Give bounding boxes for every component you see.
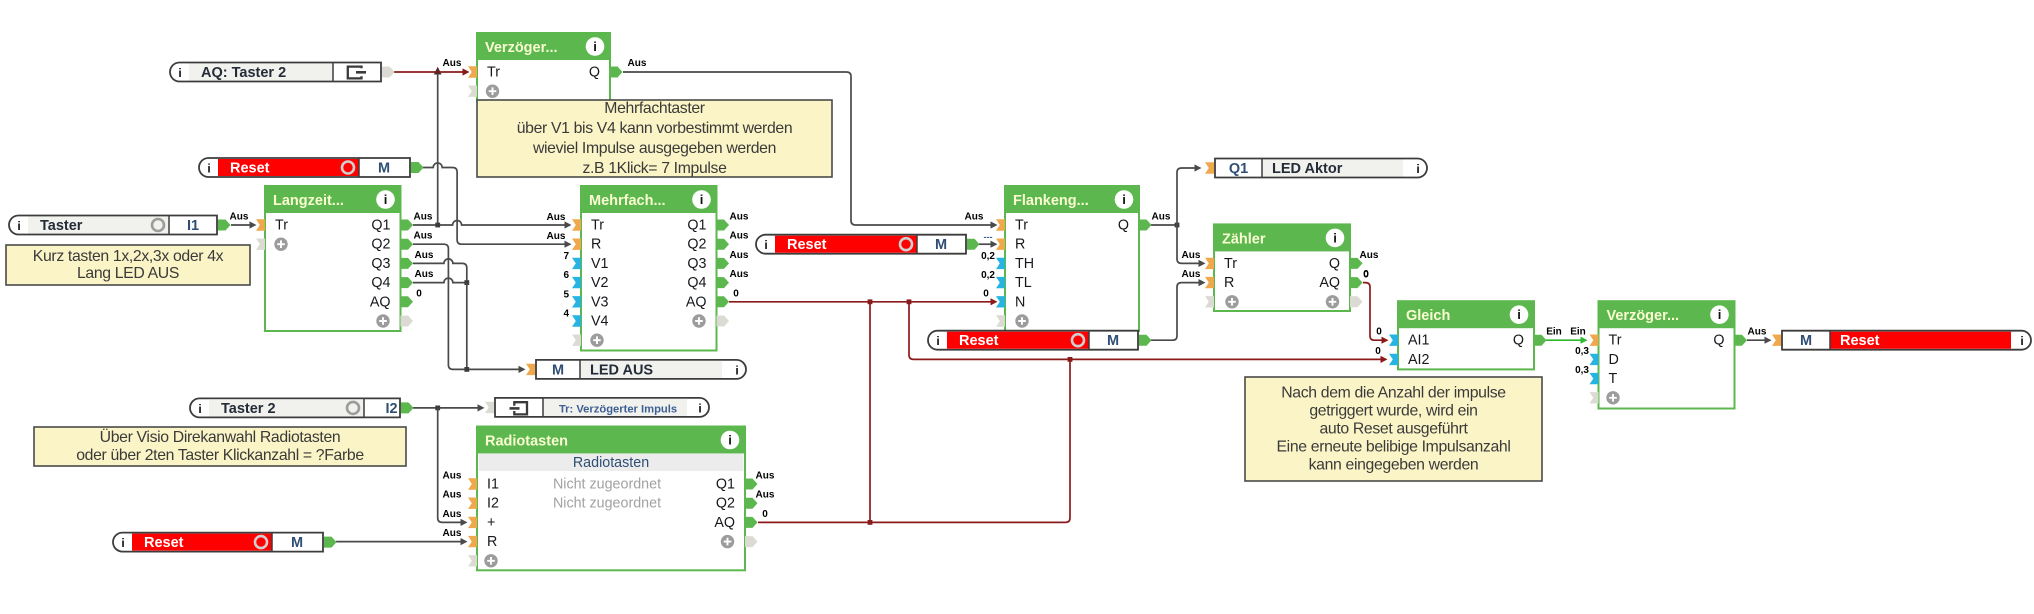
svg-text:Aus: Aus	[730, 269, 749, 280]
function block Gleich (comparator)	[1389, 301, 1547, 369]
svg-text:T: T	[1609, 371, 1618, 387]
svg-text:6: 6	[563, 270, 569, 281]
svg-text:Mehrfachtaster: Mehrfachtaster	[604, 100, 705, 117]
labels Langzeit output values	[0, 0, 1, 1]
svg-text:i: i	[1122, 192, 1126, 207]
svg-text:0,3: 0,3	[1575, 365, 1589, 376]
svg-text:i: i	[2020, 334, 2023, 348]
wire analog Radiotasten AQ right then up to join bus at 1070,359.4	[758, 359, 1070, 524]
svg-text:Über Visio Direkanwahl Radiota: Über Visio Direkanwahl Radiotasten	[100, 428, 341, 446]
svg-text:Nach dem die Anzahl der impuls: Nach dem die Anzahl der impulse	[1281, 385, 1506, 402]
svg-text:Q3: Q3	[687, 256, 706, 272]
wire Langzeit Q3 (hop over Q2 vertical) down to Q4 junction	[413, 250, 467, 283]
wire Reset marker M up to Zähler R input	[1151, 269, 1206, 340]
svg-text:Eine erneute belibige Impulsan: Eine erneute belibige Impulsanzahl	[1277, 439, 1511, 456]
svg-text:I2: I2	[487, 496, 499, 512]
svg-text:Aus: Aus	[1748, 327, 1767, 338]
svg-text:Q4: Q4	[687, 275, 706, 291]
svg-text:Aus: Aus	[730, 250, 749, 261]
svg-text:getriggert wurde, wird ein: getriggert wurde, wird ein	[1309, 403, 1477, 420]
svg-text:0,3: 0,3	[1575, 346, 1589, 357]
svg-text:Nicht zugeordnet: Nicht zugeordnet	[553, 496, 661, 512]
svg-text:Radiotasten: Radiotasten	[573, 455, 649, 471]
svg-text:M: M	[1107, 333, 1119, 349]
svg-text:Tr: Tr	[487, 65, 500, 81]
svg-text:Aus: Aus	[230, 212, 249, 223]
svg-text:Aus: Aus	[414, 212, 433, 223]
function block Verzögerung (delay) top	[468, 33, 623, 101]
note Kurz tasten	[6, 245, 250, 285]
svg-text:oder über 2ten Taster Klickanz: oder über 2ten Taster Klickanzahl = ?Far…	[76, 447, 364, 464]
function block Flankengesteuerter Impulsgeber	[981, 186, 1151, 331]
svg-text:i: i	[198, 402, 201, 416]
output reference Q1 LED Aktor	[1205, 159, 1427, 178]
svg-text:AQ: AQ	[370, 294, 391, 310]
svg-text:V4: V4	[591, 314, 609, 330]
svg-text:0: 0	[733, 288, 739, 299]
wire analog branch from junction 909,301.8 down and right to Gleich AI2	[909, 302, 1388, 363]
wire Taster 2 I2 to Tr: Verzögerter Impuls reference and down to Radiotasten + input	[413, 404, 485, 526]
function block Zähler (counter)	[1205, 224, 1379, 311]
svg-text:0: 0	[1376, 327, 1382, 338]
svg-text:i: i	[728, 433, 732, 448]
svg-text:Aus: Aus	[965, 212, 984, 223]
label Tr: Verzögerter Impuls text	[559, 403, 677, 415]
svg-text:Verzöger...: Verzöger...	[1607, 308, 1680, 324]
svg-text:Tr: Tr	[275, 218, 288, 234]
svg-text:AI1: AI1	[1408, 333, 1430, 349]
svg-text:Reset: Reset	[144, 535, 184, 551]
svg-text:i: i	[1333, 230, 1337, 245]
svg-text:Q1: Q1	[716, 477, 735, 493]
wire Langzeit Q2 down to M LED AUS marker	[413, 231, 526, 373]
svg-text:i: i	[384, 192, 388, 207]
svg-text:Q: Q	[1118, 218, 1129, 234]
svg-text:M: M	[378, 161, 390, 177]
svg-text:Aus: Aus	[756, 490, 775, 501]
svg-text:D: D	[1609, 352, 1619, 368]
svg-text:5: 5	[563, 289, 569, 300]
svg-text:Aus: Aus	[1360, 250, 1379, 261]
svg-text:Langzeit...: Langzeit...	[273, 193, 344, 209]
svg-text:Taster 2: Taster 2	[221, 401, 276, 417]
icon export arrow of AQ: Taster 2	[348, 67, 366, 79]
svg-text:R: R	[591, 237, 601, 253]
svg-text:Gleich: Gleich	[1406, 308, 1450, 324]
svg-text:Aus: Aus	[415, 269, 434, 280]
svg-text:kann eingegeben werden: kann eingegeben werden	[1309, 457, 1479, 474]
svg-text:7: 7	[563, 251, 569, 262]
wire analog bus Mehrfachtaster AQ to Flankengesteuert N input	[729, 288, 998, 305]
input reference Taster 2 I2	[190, 398, 414, 417]
input reference Reset marker middle	[756, 235, 980, 254]
svg-text:M: M	[291, 535, 303, 551]
svg-text:i: i	[735, 363, 738, 377]
svg-text:Q1: Q1	[687, 218, 706, 234]
svg-text:i: i	[700, 192, 704, 207]
svg-text:Ein: Ein	[1570, 327, 1586, 338]
svg-text:Tr: Tr	[1609, 333, 1622, 349]
svg-text:i: i	[764, 238, 767, 252]
svg-text:0: 0	[1375, 346, 1381, 357]
svg-text:Reset: Reset	[959, 333, 999, 349]
wire Langzeit Q4 (hop over Q2 vertical) join Q3 at junction 466.8,282.6	[413, 269, 469, 285]
svg-text:Tr: Tr	[1015, 218, 1028, 234]
svg-text:z.B 1Klick= 7 Impulse: z.B 1Klick= 7 Impulse	[582, 160, 727, 177]
svg-text:Mehrfach...: Mehrfach...	[589, 193, 666, 209]
svg-text:Q: Q	[1329, 256, 1340, 272]
svg-text:i: i	[936, 334, 939, 348]
labels Radiotasten unconnected inputs I1 I2	[443, 471, 462, 501]
svg-text:i: i	[1517, 307, 1521, 322]
svg-text:4: 4	[563, 309, 569, 320]
svg-text:Reset: Reset	[787, 237, 827, 253]
svg-text:V1: V1	[591, 256, 609, 272]
svg-text:Tr: Tr	[1224, 256, 1237, 272]
wire Gleich Q to Verzögerung Tr (active green)	[1546, 327, 1588, 344]
svg-text:Kurz tasten 1x,2x,3x oder 4x: Kurz tasten 1x,2x,3x oder 4x	[33, 248, 224, 265]
wire Reset marker M to Mehrfachtaster R input (hop over vertical at 437.7)	[421, 163, 572, 248]
svg-text:i: i	[1718, 307, 1722, 322]
svg-text:M: M	[552, 362, 564, 378]
note Über Visio Direkanwahl	[34, 427, 406, 466]
svg-text:Q: Q	[589, 65, 600, 81]
svg-text:Flankeng...: Flankeng...	[1013, 193, 1089, 209]
svg-text:R: R	[487, 534, 497, 550]
svg-text:LED AUS: LED AUS	[590, 362, 653, 378]
svg-text:Q2: Q2	[716, 496, 735, 512]
svg-text:Q2: Q2	[687, 237, 706, 253]
svg-text:Tr: Verzögerter Impuls: Tr: Verzögerter Impuls	[559, 403, 677, 415]
function block Mehrfachtaster	[563, 186, 729, 351]
svg-text:R: R	[1224, 275, 1234, 291]
svg-text:Taster: Taster	[40, 218, 83, 234]
svg-text:Q4: Q4	[371, 275, 390, 291]
wire Verzögerung Q to M Reset marker	[1747, 327, 1772, 344]
svg-text:über V1 bis V4 kann vorbestimm: über V1 bis V4 kann vorbestimmt werden	[517, 120, 793, 137]
function block Langzeit Impulsgeber	[256, 186, 413, 331]
svg-text:Aus: Aus	[443, 509, 462, 520]
svg-text:Ein: Ein	[1546, 327, 1562, 338]
svg-text:Q2: Q2	[371, 237, 390, 253]
note auto Reset explanation	[1245, 377, 1542, 481]
wire Reset marker M to Flankengesteuert R input	[979, 232, 998, 248]
svg-text:Aus: Aus	[547, 212, 566, 223]
svg-text:0,2: 0,2	[981, 270, 995, 281]
svg-text:Q: Q	[1713, 333, 1724, 349]
svg-text:Radiotasten: Radiotasten	[485, 434, 568, 450]
svg-text:AQ: Taster 2: AQ: Taster 2	[201, 65, 286, 81]
svg-text:Aus: Aus	[443, 471, 462, 482]
wire analog Zähler AQ down to Gleich AI1	[1363, 269, 1389, 344]
svg-text:TH: TH	[1015, 256, 1034, 272]
svg-text:Aus: Aus	[414, 231, 433, 242]
labels Mehrfachtaster output values	[730, 212, 749, 281]
svg-text:Aus: Aus	[443, 490, 462, 501]
connector reference Tr: Verzögerter Impuls	[485, 398, 709, 417]
svg-text:Nicht zugeordnet: Nicht zugeordnet	[553, 477, 661, 493]
svg-text:wieviel Impulse ausgegeben wer: wieviel Impulse ausgegeben werden	[532, 140, 776, 157]
svg-text:N: N	[1015, 294, 1025, 310]
svg-text:Verzöger...: Verzöger...	[485, 40, 558, 56]
wire analog vertical branch x=870 from AQ bus down to Radiotasten AQ bus	[869, 302, 871, 523]
wire Taster I1 output to Langzeit Tr input	[230, 212, 257, 229]
svg-text:Aus: Aus	[547, 231, 566, 242]
wire vertical Q3/Q4 bus down to LED AUS wire junction	[464, 283, 469, 372]
svg-text:I1: I1	[187, 218, 199, 234]
svg-text:i: i	[121, 536, 124, 550]
svg-text:auto Reset ausgeführt: auto Reset ausgeführt	[1319, 421, 1468, 438]
label Langzeit AQ value 0	[416, 288, 422, 299]
svg-text:V3: V3	[591, 294, 609, 310]
svg-text:0: 0	[1363, 269, 1369, 280]
output reference M LED AUS	[526, 360, 746, 379]
svg-text:i: i	[698, 401, 701, 415]
svg-text:AQ: AQ	[1319, 275, 1340, 291]
labels Radiotasten output values	[756, 471, 775, 501]
svg-text:0,2: 0,2	[981, 251, 995, 262]
svg-text:Lang LED AUS: Lang LED AUS	[77, 265, 179, 282]
svg-text:Aus: Aus	[730, 212, 749, 223]
function block Radiotasten	[468, 427, 758, 571]
svg-text:I1: I1	[487, 477, 499, 493]
svg-text:Aus: Aus	[628, 58, 647, 69]
wire Langzeit Q1 to Mehrfachtaster Tr and up to Verzögerung Tr (junction at 437.7,225)	[413, 74, 572, 229]
input reference Reset marker top	[199, 158, 424, 177]
note Mehrfachtaster explanation	[477, 100, 832, 177]
svg-text:---: ---	[984, 232, 993, 242]
svg-text:TL: TL	[1015, 275, 1032, 291]
svg-text:AI2: AI2	[1408, 352, 1430, 368]
svg-text:+: +	[487, 515, 495, 531]
svg-text:I2: I2	[385, 401, 397, 417]
svg-text:AQ: AQ	[714, 515, 735, 531]
svg-text:Reset: Reset	[1840, 333, 1880, 349]
input reference AQ: Taster 2	[170, 63, 394, 82]
svg-text:i: i	[207, 162, 210, 176]
svg-text:Q3: Q3	[371, 256, 390, 272]
svg-text:R: R	[1015, 237, 1025, 253]
svg-text:LED Aktor: LED Aktor	[1272, 161, 1343, 177]
svg-text:V2: V2	[591, 275, 609, 291]
svg-text:M: M	[1800, 333, 1812, 349]
svg-text:Tr: Tr	[591, 218, 604, 234]
svg-text:Aus: Aus	[415, 250, 434, 261]
svg-text:Aus: Aus	[1182, 250, 1201, 261]
svg-text:Aus: Aus	[1152, 212, 1171, 223]
output reference M Reset right	[1772, 331, 2031, 350]
svg-text:M: M	[935, 237, 947, 253]
svg-text:i: i	[17, 219, 20, 233]
svg-text:Zähler: Zähler	[1222, 231, 1266, 247]
input reference Reset marker for Zähler	[928, 331, 1152, 350]
svg-text:Aus: Aus	[443, 58, 462, 69]
svg-text:Aus: Aus	[730, 231, 749, 242]
function block Verzögerung (delay) right	[1575, 301, 1747, 408]
svg-text:Q: Q	[1513, 333, 1524, 349]
svg-text:i: i	[178, 66, 181, 80]
svg-text:Aus: Aus	[1182, 269, 1201, 280]
wire Reset marker M to Radiotasten R input	[336, 528, 468, 545]
input reference Taster I1	[9, 216, 231, 235]
svg-text:Reset: Reset	[230, 161, 270, 177]
input reference Reset marker bottom	[113, 533, 337, 552]
svg-text:Q1: Q1	[371, 218, 390, 234]
svg-text:i: i	[1416, 162, 1419, 176]
wire Flankengesteuert Q branch up to Q1 LED Aktor and down to Zähler Tr	[1151, 164, 1206, 267]
svg-text:Aus: Aus	[756, 471, 775, 482]
svg-text:0: 0	[762, 509, 768, 520]
svg-text:Aus: Aus	[443, 528, 462, 539]
svg-text:Q1: Q1	[1229, 161, 1248, 177]
svg-text:AQ: AQ	[686, 294, 707, 310]
wire Verzögerung Q to Flankengesteuert Tr input	[623, 58, 998, 229]
svg-text:0: 0	[416, 288, 422, 299]
svg-text:0: 0	[983, 288, 989, 299]
wire AQ: Taster 2 reference to Verzögerung Tr input (analog)	[391, 58, 470, 76]
svg-text:i: i	[593, 39, 597, 54]
